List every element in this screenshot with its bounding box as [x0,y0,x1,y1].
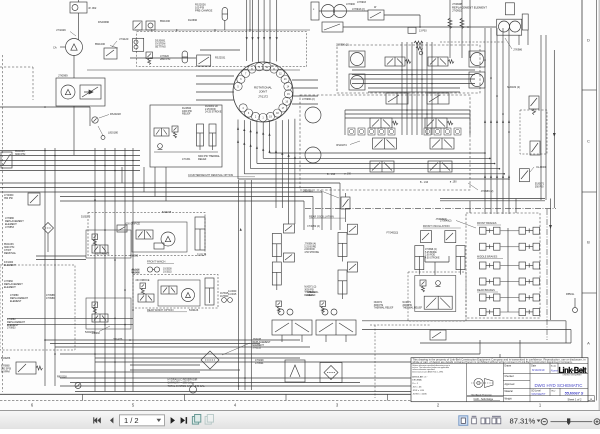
gauge RSJ0218 [92,112,121,123]
svg-text:17: 17 [282,107,285,110]
wire top right hlines [319,11,496,28]
pump frame b2b [349,74,365,90]
svg-text:DSJ0690: DSJ0690 [98,20,110,24]
rear osc valve block [272,301,312,342]
wire top bus [135,29,310,31]
svg-text:J7/0501: J7/0501 [255,362,264,365]
svg-text:CA: CA [53,46,57,50]
pump frame b3a [469,51,485,67]
value so level [532,392,546,396]
svg-text:Ø .062: Ø .062 [89,6,97,10]
svg-text:D5501L: D5501L [566,293,575,296]
svg-text:53J0275: 53J0275 [81,216,91,219]
clutch circles rear winch [220,293,232,302]
wire trunk center vertical [239,180,252,390]
wire bundle joint right [292,80,318,104]
svg-text:NU0071 (2): NU0071 (2) [304,287,316,289]
label material [505,390,514,393]
toolbar icon two pages [481,418,490,424]
label 53J0276 [85,326,110,334]
svg-text:Sheet 1 of 2: Sheet 1 of 2 [568,397,583,401]
svg-text:.030 ORIFICE: .030 ORIFICE [95,254,110,256]
pump circle bank 3 [471,53,484,87]
label orifice 190 b [450,181,457,184]
valve bank v4 [427,93,449,104]
label drawn [505,365,512,368]
svg-text:X ± .1: X ± .1 [412,383,418,385]
svg-text:WN7402/57: WN7402/57 [532,392,546,396]
dashed box NU0182 [520,110,547,154]
component 13 P03 [408,27,427,33]
svg-text:J7/0989: J7/0989 [46,297,55,300]
component DSJ0691 [133,38,166,51]
label 87/0880 [1,365,11,374]
svg-text:ANGULAR ± 1°: ANGULAR ± 1° [412,376,427,379]
svg-text:.XX ± .06: .XX ± .06 [412,387,422,389]
wire segment top [87,69,300,71]
svg-text:4: 4 [242,107,244,110]
svg-text:J7/0943 (2): J7/0943 (2) [352,8,365,11]
svg-text:3: 3 [248,112,250,115]
zone number 5 [132,402,135,407]
label date [531,365,537,368]
svg-text:53J0276: 53J0276 [85,331,95,334]
zone tick right [582,89,597,91]
svg-text:14.0000: 14.0000 [228,291,237,293]
pump circle bank 2 [351,53,364,89]
svg-text:J7/0949(2): J7/0949(2) [440,220,452,223]
label J7/0960 block [4,280,23,289]
cylinder pair A [272,224,294,262]
svg-text:D5501L6: D5501L6 [303,190,313,193]
label F7/0452 2 [387,231,399,234]
svg-text:5.25 BORE: 5.25 BORE [425,252,437,254]
svg-text:A: A [587,341,590,346]
wire bus left upper [0,106,90,126]
valve top W [357,1,384,20]
valve J7J0360 [4,193,40,205]
svg-text:350 PSI: 350 PSI [4,197,13,200]
svg-text:CONSTRUCTION EQUIPMENT: CONSTRUCTION EQUIPMENT [562,375,581,377]
label J7/0996 4 [304,244,319,254]
drawing frame right inner border [581,0,583,394]
svg-text:Weight: Weight [505,398,512,401]
svg-text:D: D [587,38,590,43]
svg-text:REMOVAL: REMOVAL [4,252,17,255]
svg-text:8: 8 [251,68,253,71]
valve bank v9 [370,161,394,172]
clutch circles front winch [147,267,172,274]
pump frame b2a [349,51,365,67]
component L8J0180 [98,126,119,140]
wire pump J7/0999 down [73,106,75,155]
svg-text:10: 10 [265,66,268,69]
svg-text:5.25 BORE: 5.25 BORE [304,246,316,248]
svg-text:53J0275: 53J0275 [162,211,172,214]
svg-text:13 P03: 13 P03 [419,30,427,33]
valve bank v5 [370,118,398,128]
svg-text:9: 9 [259,66,261,69]
value drawing number [565,391,584,396]
zone tick bottom [488,394,490,400]
wire nested bus upper [238,152,510,180]
motor M1 top [70,0,97,13]
toolbar button last page [181,417,188,424]
label J7/0996 front [425,249,440,259]
svg-text:1: 1 [262,117,264,120]
wire trunk right vertical [484,28,554,214]
svg-text:J7/0696 (2): J7/0696 (2) [425,249,437,251]
label scale [551,365,557,367]
label middle brakes [477,256,503,259]
svg-text:19: 19 [269,115,272,118]
dashed region top-left [137,32,307,67]
svg-text:W: W [374,6,377,9]
svg-text:Scale: Scale [551,365,557,367]
label NU0071 thermal relief right [403,302,423,310]
component D5501L6 [303,190,350,223]
toolbar icon previous view [192,415,200,425]
middle brake pair 1 [480,262,501,269]
svg-text:FRONT OSCILLATION: FRONT OSCILLATION [423,224,450,228]
svg-text:J7/0903: J7/0903 [357,1,367,4]
toolbar zoom dropdown arrow [537,420,541,423]
svg-text:6: 6 [31,402,34,407]
valve bank v7 [373,138,397,149]
wire bus left middle [0,148,140,172]
wire springs top right [440,0,505,58]
pump unit J7/0999 [56,74,105,107]
label rear brakes [477,289,498,292]
zone number 6 [31,402,34,407]
svg-text:4.50 STROKE: 4.50 STROKE [304,252,319,254]
wire nested bus lower [0,167,340,230]
svg-text:8/19/2019: 8/19/2019 [532,368,545,372]
toolbar button previous page [110,417,113,423]
label NU0071 2 [304,287,316,297]
filter diamond bottom [320,363,342,383]
label 53J0275 [162,211,172,214]
svg-text:2: 2 [255,115,257,118]
label J7/1029 [56,28,76,36]
svg-text:5: 5 [132,402,135,407]
zone letter D [587,38,590,43]
svg-text:KLJ2000: KLJ2000 [536,166,546,169]
drawing frame right outer border [597,0,600,410]
svg-text:DECIMAL: DECIMAL [412,379,423,382]
toolbar icon two page scroll [492,416,501,424]
label ELE front [132,269,140,275]
svg-text:MIDDLE BRAKES: MIDDLE BRAKES [477,256,498,259]
wire vertical 250 [249,0,251,30]
valve mid top [197,55,211,66]
svg-text:2000 PSI: 2000 PSI [403,305,413,307]
svg-text:SO Level: SO Level [531,390,541,392]
gauge R8J0218 [57,376,81,389]
wire brakes right line [549,199,552,321]
svg-text:RELIEF: RELIEF [182,113,191,116]
label front brakes [477,222,501,225]
svg-text:3000 PSI: 3000 PSI [374,305,384,307]
wire pair left lower [7,318,133,326]
pump circle bank 1 [305,107,321,163]
logo Link-Belt [559,366,587,376]
valve bank v3 [386,93,408,104]
svg-text:55J0067 S: 55J0067 S [565,391,584,396]
svg-text:2: 2 [437,402,440,407]
value scale [551,368,558,372]
label B 1-16 b [420,182,429,184]
heat exchanger J7/0228 [201,338,271,369]
label F7/0452 4 [307,225,320,228]
svg-text:DL0690: DL0690 [188,18,198,22]
dashed box top right [337,45,480,93]
label 85J0286 [1,357,11,360]
svg-text:2.00 ROD: 2.00 ROD [304,249,315,251]
svg-text:J7/0999: J7/0999 [58,74,68,78]
label RSJ2026 [195,3,213,13]
zone tick bottom [285,394,287,400]
svg-text:whole or part, of design are d: whole or part, of design are details con… [413,361,573,364]
rear winch block [133,275,218,309]
filter left 1 [43,223,54,253]
zone tick bottom [183,394,185,400]
svg-text:NU0182 (2): NU0182 (2) [507,86,520,89]
wire oscillation boundary [305,208,556,340]
front brake pair 2 [480,243,501,250]
valve KLJ2000 [519,166,546,182]
svg-text:1: 1 [539,402,542,407]
toolbar zoom out button [541,419,547,425]
svg-text:J7/0853: J7/0853 [7,327,16,330]
wire pump down [73,56,75,79]
svg-text:19.5515: 19.5515 [163,271,172,274]
value sheet rev [590,397,592,401]
dashed box brakes [466,213,540,318]
svg-text:3000 PSI: 3000 PSI [15,153,26,156]
svg-text:TOTAL SYSTEM CAP = 345 GAL: TOTAL SYSTEM CAP = 345 GAL [168,385,206,388]
svg-text:1 / 2: 1 / 2 [124,416,139,425]
label rear oscillation [309,214,345,218]
relief J7/0020 [146,52,171,65]
toolbar icon continuous [472,416,477,424]
title block disclaimer [413,358,587,364]
svg-text:COUNTERWEIGHT REMOVAL OPTION: COUNTERWEIGHT REMOVAL OPTION [188,174,233,177]
zone tick right [582,191,597,193]
label J7/0988 [46,294,55,300]
svg-text:Checked: Checked [505,376,515,378]
svg-text:.030 ORIFICE: .030 ORIFICE [135,280,150,282]
valve left bottom [16,362,42,374]
svg-text:12: 12 [279,72,282,75]
pump J7/1029 [53,39,83,56]
svg-text:Dimensional sizes ANSI Y14.5 -: Dimensional sizes ANSI Y14.5 -1994 [412,370,443,373]
component D5501L [566,293,578,313]
wire oscillation bottom boundary [362,321,571,343]
component DL/0690 small [133,21,155,30]
svg-text:24.25 STROKE: 24.25 STROKE [205,111,222,114]
svg-text:RSJ0274: RSJ0274 [336,144,347,147]
zone number 3 [336,402,339,407]
svg-text:J7/1029: J7/1029 [56,28,66,32]
svg-text:THERMAL RELIEF: THERMAL RELIEF [374,307,394,310]
svg-text:14: 14 [287,85,290,88]
wire bus bottom [45,339,520,391]
label third angle projection [467,393,504,396]
svg-text:60 RPM: 60 RPM [1,370,10,373]
svg-text:11: 11 [273,68,276,71]
pump group J7/0903 [311,2,365,32]
svg-text:15: 15 [287,93,290,96]
toolbar page combo box [120,415,165,426]
label J7/0989 2 [468,183,494,193]
spring center top [416,46,423,55]
label 14.0000 [228,291,237,296]
svg-text:.XXXX ± .0005: .XXXX ± .0005 [412,394,427,396]
zone tick bottom [82,394,84,400]
svg-text:B: B [587,240,590,245]
pump frame b3b [469,72,485,88]
pump circle bottom bus [190,382,197,393]
valve NU0182 [507,86,539,115]
svg-text:RSJ0218: RSJ0218 [110,112,121,116]
toolbar zoom slider handle [567,418,570,425]
front brake pair 1 [480,227,501,234]
svg-text:None: None [551,368,558,372]
zone letter A [587,341,590,346]
toolbar button next page [171,417,175,424]
svg-text:J7/0853: J7/0853 [5,226,15,229]
wire motor M1 down [78,13,80,40]
label 85J1000 b [160,19,171,23]
zone tick right [582,292,597,294]
toolbar zoom in button [594,419,600,425]
cylinder pair B [272,253,294,290]
svg-text:NU0071: NU0071 [374,302,383,304]
rear osc valve block 2 [316,301,356,342]
svg-text:ELEMENT: ELEMENT [4,264,16,267]
svg-text:13: 13 [284,78,287,81]
toolbar icon single page (selected) [459,416,468,426]
svg-text:F: F [313,9,315,11]
svg-text:FRONT WINCH: FRONT WINCH [147,260,166,264]
left dashed border h [0,67,33,100]
wire pair left mid [36,256,86,260]
svg-text:L8J0180: L8J0180 [108,131,119,135]
label cad solid edge [474,398,501,401]
svg-text:Drawn: Drawn [505,365,512,368]
label so level [531,390,541,392]
label checked [505,376,515,378]
label front winch [147,260,174,264]
svg-text:B - 1/16: B - 1/16 [327,174,336,176]
svg-text:SETTING: SETTING [155,45,166,48]
valve NU0182 lower [530,141,540,155]
zone tick bottom [387,394,389,400]
title block grid [411,358,595,402]
valve bank v1 [385,57,411,66]
svg-text:C: C [587,139,590,144]
pump group top right [497,3,529,52]
svg-text:RELIEF: RELIEF [308,295,317,297]
rear winch left subbox [86,298,131,341]
accumulator RSJ2026 [222,8,228,31]
value dwg title [535,383,583,388]
svg-text:85J1000: 85J1000 [95,42,106,46]
svg-text:RELIEF: RELIEF [198,158,207,161]
front osc center block [408,256,466,321]
wire bundle joint top [246,0,278,63]
svg-text:J7/0996 (4): J7/0996 (4) [304,244,316,246]
solenoid row main bank [348,128,461,135]
label replacement element top [452,2,487,13]
svg-text:87.31%: 87.31% [510,416,536,425]
svg-text:J7/1151: J7/1151 [182,158,191,161]
arrow on line 554 [553,133,556,137]
svg-text:F7/0452 (4): F7/0452 (4) [307,225,320,228]
svg-text:85J0286: 85J0286 [1,357,11,360]
label DL0690 b [188,18,198,22]
svg-text:14.0015: 14.0015 [228,294,237,296]
label DSJ0690 [98,20,110,24]
svg-text:Material: Material [505,390,514,393]
wire reservoir bus [60,365,200,372]
svg-text:REAR WINCH OPTION: REAR WINCH OPTION [147,309,174,312]
svg-text:5: 5 [237,85,239,88]
svg-text:2.00 ROD: 2.00 ROD [425,255,436,257]
label hydraulic reservoir [168,379,206,388]
label 85J1036 removal [4,243,17,255]
rear osc cylinder 2 [338,262,357,299]
svg-text:7: 7 [245,72,247,75]
wire right top vertical [519,30,528,45]
label rev [552,390,557,392]
zone number 2 [437,402,440,407]
dashed box left bottom [0,265,75,350]
svg-text:J7/0900: J7/0900 [346,3,356,6]
label thermal relief center [308,291,320,297]
toolbar zoom slider track [551,421,593,423]
label DB/0021 [131,270,140,275]
svg-text:J7/0989 (2): J7/0989 (2) [481,190,494,193]
toolbar button first page [93,417,101,423]
title block tolerance text [412,364,450,396]
svg-text:ELEMENT: ELEMENT [10,300,22,303]
accumulator RSJ2031 [182,51,226,63]
toolbar icon next view [205,415,213,425]
valve cluster NU0071 right [430,330,446,340]
label front oscillation [423,224,461,228]
zone letter B [587,240,590,245]
svg-text:J7/0910: J7/0910 [452,9,462,13]
svg-text:J7/0996 (2): J7/0996 (2) [302,98,315,101]
wire bus left verticals [44,172,134,392]
label weight [505,398,512,401]
spring top mid [414,41,423,45]
svg-text:B - 1/16: B - 1/16 [420,182,429,184]
svg-text:J7/0986: J7/0986 [513,49,523,52]
label NU0071 front [374,302,394,310]
svg-text:B: B [590,397,592,401]
svg-text:F7/0452(2): F7/0452(2) [387,231,399,234]
label 55J0071 [535,183,545,189]
svg-text:4: 4 [234,402,237,407]
svg-text:THERMAL RELIEF: THERMAL RELIEF [403,307,423,310]
svg-text:350 PSI: 350 PSI [535,185,544,188]
svg-text:RSJ2031: RSJ2031 [215,57,226,60]
svg-text:PRE-CHARGE: PRE-CHARGE [195,9,213,13]
dashed line bottom right [370,325,430,398]
